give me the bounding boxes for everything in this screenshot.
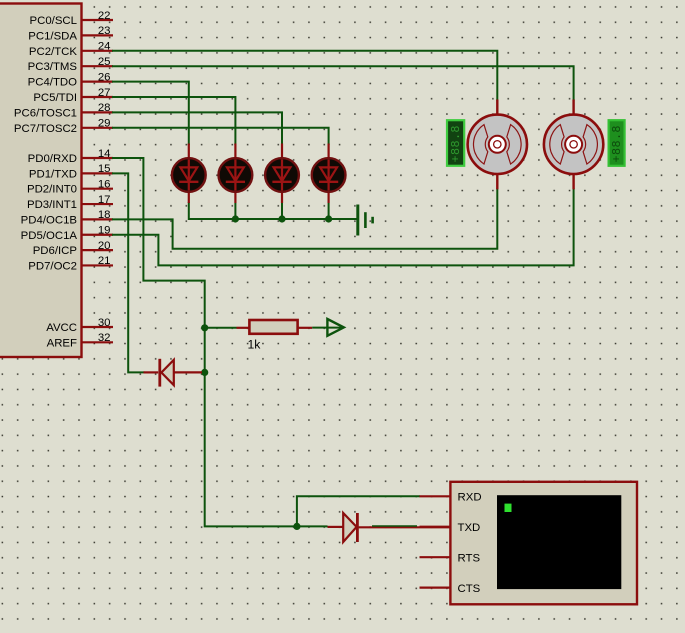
node R (junction) <box>201 324 208 331</box>
terminal pin CTS <box>420 583 481 595</box>
svg-text:30: 30 <box>98 317 111 329</box>
node T (junction) <box>293 523 300 530</box>
svg-text:23: 23 <box>98 25 111 37</box>
pin 14 (PD0/RXD) stub <box>28 148 113 165</box>
svg-text:PD3/INT1: PD3/INT1 <box>27 199 77 211</box>
pin 28 (PC6/TOSC1) stub <box>14 102 113 119</box>
svg-text:1k: 1k <box>248 337 262 351</box>
junction <box>325 215 332 222</box>
wire node D down to node T <box>205 372 297 526</box>
svg-text:RXD: RXD <box>458 492 482 504</box>
wire node R down to node D <box>204 328 206 373</box>
wire node T to terminal RXD <box>297 496 419 526</box>
wire pin19 to motor2 bottom <box>113 189 574 265</box>
pin 19 (PD5/OC1A) stub <box>21 225 113 242</box>
pin 21 (PD7/OC2) stub <box>28 255 113 272</box>
svg-text:+88.8: +88.8 <box>610 125 624 162</box>
pin 30 (AVCC) stub <box>46 317 113 334</box>
pin 29 (PC7/TOSC2) stub <box>14 118 113 135</box>
svg-text:PC0/SCL: PC0/SCL <box>30 15 77 27</box>
svg-text:PC7/TOSC2: PC7/TOSC2 <box>14 123 77 135</box>
svg-text:PC6/TOSC1: PC6/TOSC1 <box>14 107 77 119</box>
wire pin15 to diode D5 cathode <box>113 173 144 372</box>
svg-text:PC3/TMS: PC3/TMS <box>28 61 78 73</box>
wire pin27 to LED D2 anode <box>113 97 235 144</box>
svg-text:32: 32 <box>98 332 111 344</box>
pin 32 (AREF) stub <box>47 332 113 349</box>
display DISP2 (motor M2 rpm) <box>609 120 625 166</box>
wire pin28 to LED D3 anode <box>113 112 282 144</box>
svg-text:PC2/TCK: PC2/TCK <box>29 46 78 58</box>
svg-text:28: 28 <box>98 102 111 114</box>
svg-text:16: 16 <box>98 179 111 191</box>
wire pin18 to motor1 bottom <box>113 189 497 249</box>
svg-text:20: 20 <box>98 240 111 252</box>
terminal cursor <box>505 504 512 512</box>
svg-text:25: 25 <box>98 56 111 68</box>
svg-text:19: 19 <box>98 225 111 237</box>
pin 18 (PD4/OC1B) stub <box>21 209 113 226</box>
svg-text:PD6/ICP: PD6/ICP <box>33 245 77 257</box>
pin 27 (PC5/TDI) stub <box>33 87 113 104</box>
svg-text:AREF: AREF <box>47 337 77 349</box>
svg-text:22: 22 <box>98 10 111 22</box>
motor M1 <box>468 100 527 190</box>
pin 16 (PD2/INT0) stub <box>27 179 113 196</box>
wire pin24 to motor1 top <box>113 51 497 100</box>
svg-text:17: 17 <box>98 194 111 206</box>
wire pin25 to motor2 top <box>113 66 574 99</box>
svg-text:CTS: CTS <box>458 583 481 595</box>
svg-text:PD2/INT0: PD2/INT0 <box>27 184 77 196</box>
svg-text:PC4/TDO: PC4/TDO <box>28 77 78 89</box>
pin 25 (PC3/TMS) stub <box>28 56 113 73</box>
svg-text:PC5/TDI: PC5/TDI <box>33 92 77 104</box>
svg-text:29: 29 <box>98 118 111 130</box>
svg-text:PD4/OC1B: PD4/OC1B <box>21 214 77 226</box>
virtual terminal body <box>450 482 637 605</box>
svg-text:14: 14 <box>98 148 111 160</box>
terminal pin RXD <box>420 492 482 504</box>
terminal pin RTS <box>420 552 481 564</box>
ground <box>358 205 373 236</box>
LED D3 <box>265 144 299 204</box>
svg-text:24: 24 <box>98 41 111 53</box>
wire pin14 to node R1 <box>113 158 205 328</box>
svg-text:PD0/RXD: PD0/RXD <box>28 153 77 165</box>
wire pin29 to LED D4 anode <box>113 128 329 144</box>
svg-text:PD5/OC1A: PD5/OC1A <box>21 230 78 242</box>
svg-text:TXD: TXD <box>458 522 481 534</box>
pin 22 (PC0/SCL) stub <box>30 10 113 27</box>
svg-text:15: 15 <box>98 163 111 175</box>
svg-text:PC1/SDA: PC1/SDA <box>28 30 77 42</box>
pin 17 (PD3/INT1) stub <box>27 194 113 211</box>
wire pin26 to LED D1 anode <box>113 82 189 144</box>
node D (junction at diode D5 anode) <box>201 369 208 376</box>
probe / buffer arrow <box>327 319 343 336</box>
wire node R to resistor R1 <box>205 327 237 329</box>
pin 23 (PC1/SDA) stub <box>28 25 113 42</box>
wire node T to diode D6 anode <box>297 525 328 527</box>
svg-text:+88.8: +88.8 <box>449 125 463 162</box>
svg-text:AVCC: AVCC <box>46 322 77 334</box>
diode D5 <box>144 359 203 387</box>
svg-text:21: 21 <box>98 255 111 267</box>
svg-text:RTS: RTS <box>458 552 481 564</box>
LED D2 <box>219 144 253 204</box>
junction <box>278 215 285 222</box>
svg-text:27: 27 <box>98 87 111 99</box>
LED D1 <box>172 144 206 204</box>
wire diode D6 cathode to terminal TXD <box>359 526 451 527</box>
wire LED cathode bus to ground <box>189 203 357 219</box>
microcontroller U1 body <box>0 4 82 358</box>
pin 15 (PD1/TXD) stub <box>29 163 113 180</box>
svg-text:PD7/OC2: PD7/OC2 <box>28 260 77 272</box>
terminal pin TXD <box>420 522 481 534</box>
motor M2 <box>544 100 603 190</box>
junction <box>232 215 239 222</box>
svg-text:PD1/TXD: PD1/TXD <box>29 168 77 180</box>
pin 20 (PD6/ICP) stub <box>33 240 113 257</box>
svg-text:18: 18 <box>98 209 111 221</box>
diode D6 <box>328 513 358 542</box>
pin 26 (PC4/TDO) stub <box>28 71 113 88</box>
resistor R1 (1k) <box>237 320 313 351</box>
wire resistor R1 to probe <box>312 327 343 329</box>
pin 24 (PC2/TCK) stub <box>29 41 113 58</box>
LED D4 <box>312 144 346 204</box>
svg-text:26: 26 <box>98 71 111 83</box>
display DISP1 (motor M1 rpm) <box>447 120 464 166</box>
